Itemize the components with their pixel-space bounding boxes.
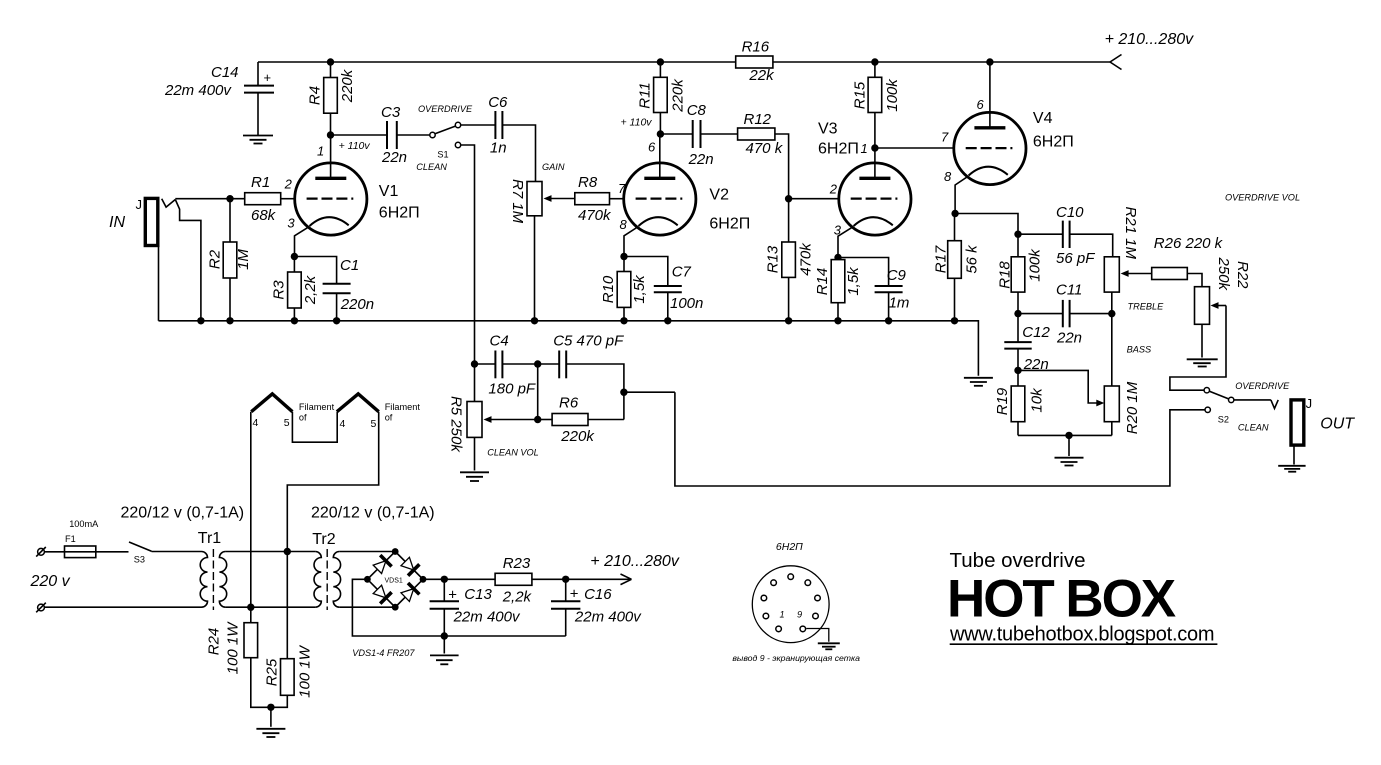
- capacitor C3: [381, 104, 407, 166]
- svg-text:CLEAN: CLEAN: [416, 162, 447, 172]
- node: clean network top junction: [471, 360, 478, 367]
- svg-text:100 1W: 100 1W: [225, 621, 242, 675]
- svg-text:Tr2: Tr2: [312, 531, 336, 548]
- svg-text:V3: V3: [818, 121, 838, 138]
- potentiometer R21 (overdrive vol): [1104, 207, 1151, 314]
- wire: tone stack ground run: [1018, 434, 1112, 436]
- svg-text:+: +: [570, 586, 579, 603]
- capacitor C11: [1018, 282, 1112, 347]
- svg-text:2: 2: [829, 182, 838, 197]
- svg-text:Filament: Filament: [385, 402, 421, 412]
- svg-text:R7 1M: R7 1M: [509, 179, 526, 224]
- svg-text:100n: 100n: [670, 295, 703, 312]
- tube V2 6N2P: [618, 134, 750, 257]
- svg-text:68k: 68k: [251, 207, 277, 224]
- svg-text:S1: S1: [437, 150, 448, 160]
- svg-text:+: +: [264, 70, 272, 85]
- ground below R22: [1187, 359, 1218, 366]
- svg-text:R25: R25: [264, 658, 281, 686]
- resistor R13: [765, 199, 815, 321]
- wire: filament feed left (pin 4): [250, 412, 252, 608]
- wire: to PSU ground: [270, 707, 272, 727]
- svg-text:R20 1M: R20 1M: [1124, 381, 1141, 434]
- svg-text:10k: 10k: [1029, 387, 1046, 413]
- capacitor C16: [551, 579, 642, 636]
- resistor R2: [207, 199, 253, 321]
- svg-text:22m 400v: 22m 400v: [453, 609, 521, 626]
- svg-text:56 pF: 56 pF: [1056, 250, 1095, 267]
- node: V1 cathode junction: [291, 253, 298, 260]
- resistor R12: [701, 111, 784, 157]
- ground below OUT jack: [1278, 466, 1305, 472]
- svg-text:9: 9: [797, 610, 802, 620]
- ground below C13: [430, 655, 459, 664]
- svg-text:R22: R22: [1234, 261, 1251, 289]
- svg-text:6Н2П: 6Н2П: [818, 141, 859, 158]
- node: V3 cathode junction: [834, 254, 841, 261]
- svg-text:OVERDRIVE: OVERDRIVE: [418, 104, 473, 114]
- resistor R26: [1152, 235, 1224, 280]
- tube V4 6N2P: [941, 62, 1074, 214]
- svg-text:C12: C12: [1022, 324, 1050, 341]
- svg-text:R15: R15: [852, 81, 869, 109]
- node: C12 bottom junction: [1014, 367, 1021, 374]
- wire: mains lower to Tr1 primary: [44, 606, 201, 608]
- svg-text:C3: C3: [381, 104, 401, 121]
- svg-text:180 pF: 180 pF: [488, 381, 536, 398]
- svg-text:R26 220 k: R26 220 k: [1154, 235, 1224, 252]
- svg-text:220/12 v (0,7-1A): 220/12 v (0,7-1A): [311, 505, 435, 522]
- svg-text:C9: C9: [887, 267, 907, 284]
- wire: Tr1 secondary top to Tr2 primary top: [225, 551, 315, 553]
- capacitor C5: [553, 333, 624, 420]
- resistor R17: [933, 214, 981, 321]
- svg-text:V4: V4: [1033, 110, 1053, 127]
- svg-text:R14: R14: [814, 268, 831, 296]
- svg-text:R12: R12: [744, 111, 772, 128]
- wire: V3 anode to V4 grid: [875, 147, 955, 149]
- wire: junction to V3 grid: [789, 198, 839, 200]
- wire: R22 bottom to ground: [1201, 324, 1203, 357]
- fuse F1 100mA: [44, 519, 128, 558]
- svg-text:R24: R24: [206, 628, 223, 656]
- wire: bridge minus to ground rail: [352, 579, 565, 636]
- capacitor C12: [1004, 314, 1050, 373]
- svg-text:S2: S2: [1218, 415, 1229, 425]
- mains terminal upper: [36, 547, 46, 557]
- svg-text:TREBLE: TREBLE: [1128, 302, 1165, 312]
- svg-text:R19: R19: [994, 387, 1011, 415]
- resistor R10: [600, 257, 648, 321]
- capacitor C9: [838, 258, 909, 321]
- svg-text:R11: R11: [637, 82, 654, 108]
- jack J IN: [109, 197, 201, 321]
- svg-text:470k: 470k: [798, 242, 815, 276]
- svg-text:220/12 v (0,7-1A): 220/12 v (0,7-1A): [121, 505, 245, 522]
- node: bus junctions (dots): [197, 58, 993, 324]
- svg-text:2,2k: 2,2k: [302, 274, 319, 305]
- potentiometer R22: [1195, 257, 1252, 325]
- mains terminal lower: [36, 603, 46, 613]
- svg-text:22n: 22n: [1056, 330, 1082, 347]
- resistor R6: [552, 395, 624, 446]
- svg-text:+ 210...280v: + 210...280v: [1105, 31, 1195, 48]
- node: V3 anode junction: [871, 144, 878, 151]
- svg-text:HOT BOX: HOT BOX: [947, 570, 1176, 629]
- svg-text:C13: C13: [464, 586, 492, 603]
- resistor R24: [206, 607, 271, 707]
- ground at pin 9: [818, 643, 840, 649]
- capacitor C4: [475, 333, 560, 398]
- svg-text:V1: V1: [379, 183, 399, 200]
- svg-text:22k: 22k: [748, 67, 775, 84]
- resistor R8: [575, 174, 625, 224]
- transformer Tr2: [312, 531, 340, 610]
- svg-text:C11: C11: [1056, 282, 1082, 299]
- wire: V2 anode to C8: [660, 133, 692, 135]
- svg-text:R21 1M: R21 1M: [1122, 207, 1139, 260]
- svg-text:R2: R2: [207, 249, 224, 269]
- wire: V4 cathode to tone stack: [955, 214, 1018, 257]
- ground PSU: [256, 729, 285, 737]
- wire: B+ top rail left segment: [258, 61, 736, 63]
- resistor R16 (in B+ rail): [736, 39, 775, 85]
- svg-text:C5 470 pF: C5 470 pF: [553, 333, 624, 350]
- filament of V (left heater symbol): [251, 394, 334, 429]
- node: V2 anode junction, +110v: [657, 130, 664, 137]
- wire: V1 anode to C3: [331, 134, 388, 136]
- wire: junction to S2 clean run: [624, 391, 675, 393]
- svg-text:5: 5: [371, 418, 377, 430]
- svg-text:C1: C1: [340, 257, 359, 274]
- potentiometer R7 (GAIN): [509, 162, 575, 321]
- diode VDS1-3 (bottom-left): [373, 585, 391, 603]
- diode VDS1-4 (bottom-right): [401, 583, 419, 601]
- node: overdrive output junction: [620, 389, 627, 396]
- svg-text:470k: 470k: [578, 207, 612, 224]
- svg-text:Tr1: Tr1: [198, 530, 222, 547]
- resistor R25: [264, 552, 314, 708]
- svg-text:470 k: 470 k: [746, 140, 784, 157]
- svg-text:6Н2П: 6Н2П: [776, 541, 803, 553]
- svg-text:R4: R4: [307, 86, 324, 105]
- svg-text:C7: C7: [672, 264, 692, 281]
- wire: C6 to R7 gain pot top: [502, 125, 535, 182]
- svg-text:V2: V2: [709, 187, 729, 204]
- potentiometer R5 (clean vol): [448, 396, 539, 471]
- resistor R18: [997, 248, 1044, 314]
- svg-text:56 k: 56 k: [964, 244, 981, 274]
- svg-text:4: 4: [340, 418, 346, 430]
- node: C16 junction: [562, 576, 569, 583]
- svg-text:6Н2П: 6Н2П: [1033, 134, 1074, 151]
- wire: S1 clean contact down to clean volume network: [461, 145, 475, 402]
- svg-text:J: J: [136, 197, 143, 212]
- svg-text:+: +: [448, 587, 457, 604]
- svg-text:OVERDRIVE VOL: OVERDRIVE VOL: [1225, 193, 1300, 203]
- svg-text:J: J: [1306, 396, 1313, 411]
- svg-text:1: 1: [861, 141, 868, 156]
- svg-text:R10: R10: [600, 275, 617, 303]
- resistor R4: [307, 62, 357, 135]
- potentiometer R20 (bass): [1104, 314, 1141, 436]
- svg-text:6Н2П: 6Н2П: [709, 216, 750, 233]
- svg-text:220k: 220k: [670, 78, 687, 113]
- capacitor C7: [624, 257, 703, 321]
- wire: Tr2 secondary to bridge: [339, 551, 395, 553]
- transformer Tr1: [198, 530, 227, 610]
- wire: C13 ground stem: [443, 636, 445, 654]
- wire: filament feed right (pin 5): [287, 412, 378, 552]
- svg-text:F1: F1: [65, 534, 76, 544]
- svg-text:6: 6: [977, 97, 985, 112]
- wire: R23 to DC output arrow: [532, 574, 632, 585]
- svg-text:1,5k: 1,5k: [845, 266, 862, 296]
- ground below C14: [243, 136, 273, 144]
- node: V2 cathode junction: [620, 253, 627, 260]
- node: C11 row junctions: [1014, 310, 1021, 317]
- node: bridge corner dots: [364, 548, 426, 611]
- node: V4 cathode junction: [951, 210, 958, 217]
- wire: S3 to Tr1 primary: [152, 551, 202, 553]
- svg-text:1: 1: [317, 144, 324, 159]
- wire: S2 pole to OUT jack with plug notch: [1234, 400, 1278, 409]
- svg-text:220k: 220k: [339, 68, 356, 103]
- svg-text:2: 2: [284, 177, 293, 192]
- svg-text:VDS1-4 FR207: VDS1-4 FR207: [352, 648, 415, 658]
- svg-text:1: 1: [780, 610, 785, 620]
- tube V1 6N2P: [284, 135, 420, 257]
- svg-text:3: 3: [287, 216, 295, 231]
- svg-text:вывод 9 - экранирующая сетка: вывод 9 - экранирующая сетка: [732, 653, 860, 663]
- wire: R1 to V1 grid: [281, 198, 296, 200]
- svg-text:R6: R6: [559, 395, 579, 412]
- svg-text:250k: 250k: [1215, 257, 1232, 292]
- svg-text:R23: R23: [503, 555, 531, 572]
- svg-text:8: 8: [620, 217, 628, 232]
- svg-text:C10: C10: [1056, 204, 1084, 221]
- svg-text:2,2k: 2,2k: [502, 589, 533, 606]
- wire: B+ top rail right segment with end break arrow: [773, 55, 1122, 70]
- svg-text:1M: 1M: [235, 249, 252, 270]
- ground below tone stack: [1055, 458, 1084, 466]
- node: V3 grid junction: [785, 195, 792, 202]
- wire: C4-C5 junction down link: [537, 364, 539, 420]
- node: filament tap junctions: [284, 548, 291, 555]
- svg-text:7: 7: [618, 181, 626, 196]
- wire: R22 wiper to S2 overdrive contact: [1170, 306, 1226, 391]
- svg-text:of: of: [385, 413, 393, 423]
- ground at end of bus: [964, 378, 993, 386]
- diode VDS1-1 (top-left): [373, 555, 391, 573]
- node: R18 top / C10 junction: [1014, 231, 1021, 238]
- resistor R15: [852, 62, 902, 148]
- resistor R23: [495, 555, 532, 606]
- wire: bridge plus to R23: [423, 578, 495, 580]
- capacitor C13: [430, 579, 521, 636]
- svg-text:R5 250k: R5 250k: [448, 396, 465, 453]
- wire: C12 junction to R20 wiper: [1018, 370, 1104, 406]
- svg-text:C4: C4: [490, 333, 509, 350]
- svg-text:C6: C6: [488, 94, 508, 111]
- bridge rectifier VDS1: [367, 552, 423, 608]
- resistor R11: [637, 62, 687, 134]
- svg-text:C16: C16: [584, 586, 612, 603]
- wire: jack tip to R1: [175, 198, 244, 200]
- svg-text:R17: R17: [933, 245, 950, 273]
- switch S2: [1204, 381, 1290, 433]
- wire: pin 9 to ground: [806, 629, 829, 642]
- svg-text:R3: R3: [271, 280, 288, 300]
- filament of V (right heater symbol): [337, 394, 420, 430]
- svg-text:6: 6: [648, 140, 656, 155]
- resistor R3: [271, 257, 320, 321]
- svg-text:R16: R16: [742, 39, 770, 56]
- svg-text:100mA: 100mA: [69, 519, 99, 529]
- svg-text:5: 5: [284, 417, 290, 429]
- capacitor C1: [294, 257, 374, 321]
- svg-text:8: 8: [944, 169, 952, 184]
- svg-text:6Н2П: 6Н2П: [379, 205, 420, 222]
- svg-text:C8: C8: [687, 102, 707, 119]
- node: input junction: [226, 195, 233, 202]
- resistor R14: [814, 258, 862, 321]
- svg-text:22n: 22n: [381, 149, 407, 166]
- switch S1: [416, 104, 473, 172]
- capacitor C8: [687, 102, 714, 168]
- svg-text:100k: 100k: [884, 78, 901, 112]
- svg-text:R1: R1: [251, 174, 270, 191]
- svg-text:220 v: 220 v: [30, 573, 71, 590]
- svg-text:R13: R13: [765, 245, 782, 273]
- node: R24/R25 ground junction: [267, 704, 274, 711]
- svg-text:IN: IN: [109, 214, 125, 231]
- resistor R19: [994, 370, 1046, 435]
- svg-text:22m 400v: 22m 400v: [574, 609, 642, 626]
- svg-text:+ 110v: + 110v: [621, 117, 653, 129]
- switch S3: [129, 542, 152, 565]
- svg-text:OVERDRIVE: OVERDRIVE: [1235, 381, 1290, 391]
- svg-text:C14: C14: [211, 64, 239, 81]
- wire: heater series link: [292, 412, 337, 443]
- svg-text:GAIN: GAIN: [542, 162, 565, 172]
- wire: R12 to V3 grid: [775, 134, 789, 199]
- resistor R1: [245, 174, 281, 224]
- svg-text:Filament: Filament: [299, 402, 335, 412]
- capacitor C6: [488, 94, 508, 157]
- capacitor C14: [164, 62, 274, 136]
- wire: to R5 wiper: [484, 416, 538, 423]
- node: R5 wiper junction: [534, 416, 541, 423]
- node: C13 junctions: [441, 576, 448, 583]
- svg-text:3: 3: [834, 223, 842, 238]
- wire: R6 left to wiper junction: [538, 419, 552, 421]
- svg-text:BASS: BASS: [1127, 345, 1152, 355]
- wire: R26 to R22 top: [1187, 274, 1202, 287]
- node: V1 anode junction, +110v: [327, 131, 334, 138]
- svg-text:CLEAN: CLEAN: [1238, 423, 1269, 433]
- svg-text:220k: 220k: [560, 428, 595, 445]
- svg-text:of: of: [299, 413, 307, 423]
- tube V3 6N2P: [818, 121, 911, 258]
- wire: Tr1 secondary bottom to Tr2 primary bottom: [225, 606, 315, 608]
- svg-text:1n: 1n: [490, 140, 507, 157]
- svg-text:S3: S3: [134, 555, 145, 565]
- svg-text:CLEAN VOL: CLEAN VOL: [487, 448, 539, 458]
- jack J OUT: [1291, 396, 1355, 465]
- svg-text:100k: 100k: [1027, 248, 1044, 282]
- svg-text:1,5k: 1,5k: [631, 274, 648, 304]
- svg-text:R18: R18: [997, 261, 1014, 289]
- title: www.tubehotbox.blogspot.com: [949, 624, 1217, 646]
- svg-text:VDS1: VDS1: [385, 578, 403, 585]
- diode VDS1-2 (top-right): [401, 557, 419, 575]
- svg-text:7: 7: [941, 130, 949, 145]
- svg-text:www.tubehotbox.blogspot.com: www.tubehotbox.blogspot.com: [949, 624, 1214, 646]
- wire: S2 clean contact to clean channel: [675, 392, 1205, 486]
- svg-text:+ 210...280v: + 210...280v: [590, 553, 680, 570]
- wire: C3 to S1 pole: [397, 134, 430, 136]
- svg-text:R8: R8: [578, 174, 598, 191]
- svg-text:22m 400v: 22m 400v: [164, 82, 232, 99]
- ground below R5: [460, 472, 489, 481]
- svg-text:4: 4: [253, 417, 259, 429]
- capacitor C10: [1018, 204, 1113, 267]
- svg-text:+ 110v: + 110v: [339, 140, 371, 152]
- svg-text:22n: 22n: [688, 151, 714, 168]
- wire: S1 overdrive contact to C6: [461, 124, 496, 126]
- svg-text:OUT: OUT: [1320, 416, 1355, 433]
- svg-text:1m: 1m: [889, 295, 910, 312]
- svg-text:100 1W: 100 1W: [297, 644, 314, 698]
- node: C4/C5 junction: [534, 360, 541, 367]
- svg-text:220n: 220n: [340, 296, 374, 313]
- tube socket pinout 6N2P: [752, 541, 829, 643]
- wire: main ground bus: [159, 321, 979, 376]
